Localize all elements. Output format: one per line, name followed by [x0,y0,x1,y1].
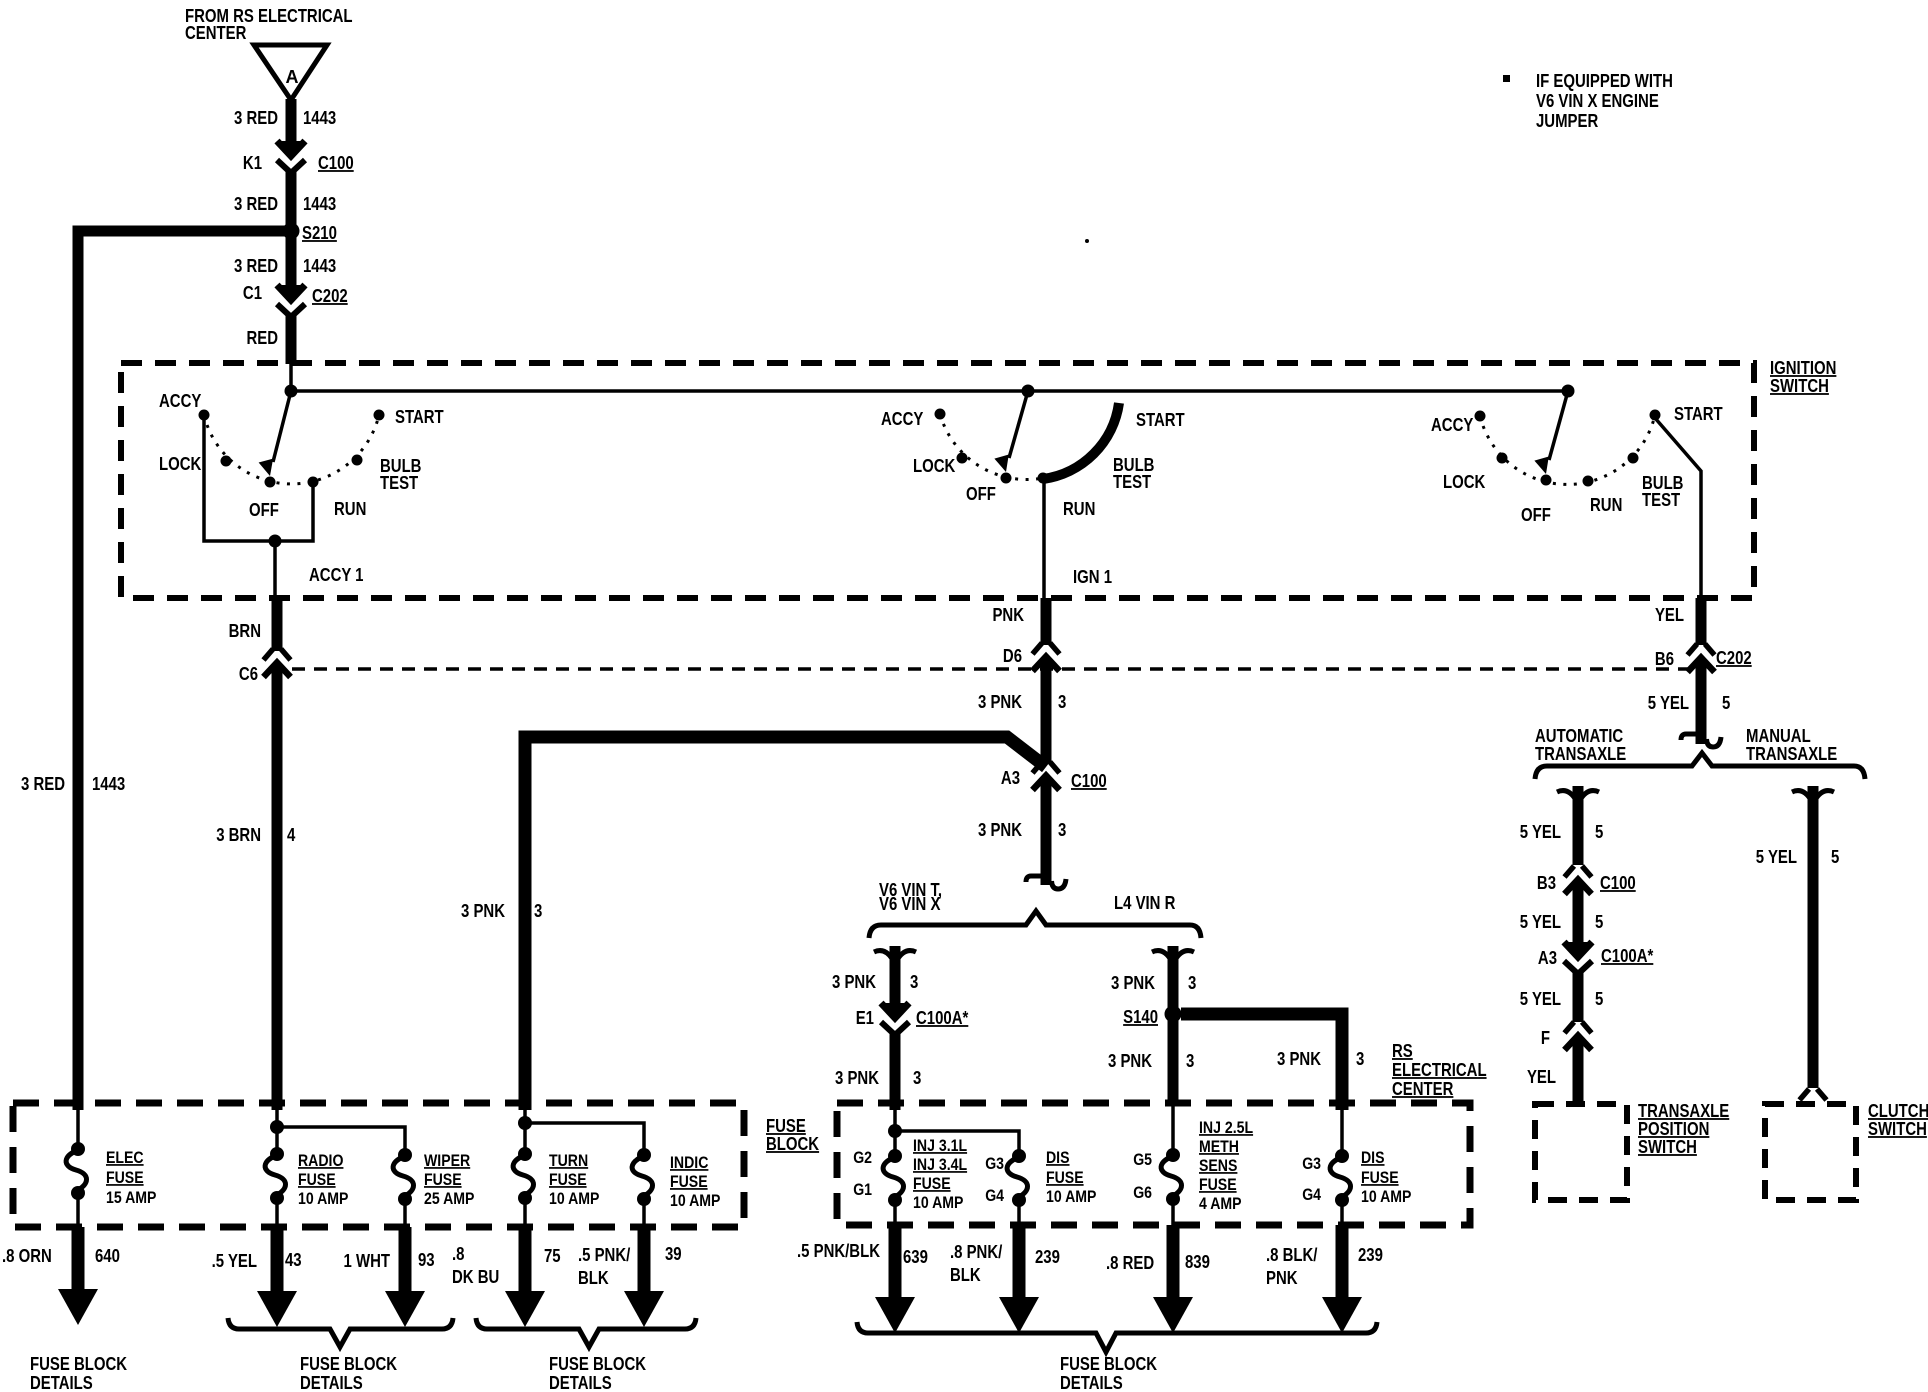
svg-text:10 AMP: 10 AMP [1361,1188,1411,1206]
svg-text:C100A*: C100A* [916,1008,969,1029]
wire 3 PNK 3 (S140 right to DIS fuse) [1181,1014,1342,1110]
wire split prongs above transaxle brace [1681,734,1721,747]
switch 3 contact LOCK [1497,453,1508,464]
svg-text:5: 5 [1831,847,1839,868]
switch 3 output line from START [1655,418,1701,598]
switch 1 contact BULB TEST [352,455,363,466]
svg-text:L4 VIN R: L4 VIN R [1114,893,1175,914]
svg-text:.8: .8 [452,1244,464,1265]
switch 2 contact RUN [1038,473,1049,484]
svg-text:DETAILS: DETAILS [1060,1373,1123,1392]
svg-text:TRANSAXLE: TRANSAXLE [1535,744,1626,765]
svg-text:10 AMP: 10 AMP [298,1190,348,1208]
svg-text:A3: A3 [1001,768,1020,789]
switch 3 wiper arrow to OFF [1549,391,1568,460]
ignition switch pole 2: dotted position arc [940,414,1043,480]
wire 3 PNK 3 (C100 to engine split) [1041,779,1052,885]
svg-text:5: 5 [1595,912,1603,933]
svg-text:START: START [395,407,444,428]
svg-text:.5 PNK/BLK: .5 PNK/BLK [797,1241,880,1262]
thick branch wire from TURN fuse feed to C100/A3 [525,737,1046,1110]
svg-text:START: START [1136,410,1185,431]
svg-text:239: 239 [1358,1245,1383,1266]
svg-text:D6: D6 [1003,646,1022,667]
svg-text:ELECTRICAL: ELECTRICAL [1392,1060,1487,1081]
TURN FUSE 10 AMP element [518,1147,532,1161]
wire PNK (IGN 1 out of box) [1041,598,1052,645]
WIPER FUSE 25 AMP element [398,1148,412,1162]
wire YEL (START out of box) [1696,598,1707,645]
TURN fuse feed wire and junction [523,1110,527,1154]
svg-text:.8 RED: .8 RED [1106,1253,1154,1274]
automatic transaxle branch start prongs [1557,791,1599,800]
svg-text:839: 839 [1185,1252,1210,1273]
svg-text:G3: G3 [985,1155,1004,1173]
output arrow .5 PNK/BLK 39 [638,1227,651,1295]
svg-text:TEST: TEST [380,473,418,494]
switch 1 wiper arrow to OFF [273,391,291,462]
svg-text:G4: G4 [1302,1186,1321,1204]
svg-text:93: 93 [418,1250,435,1271]
svg-text:3 PNK: 3 PNK [461,901,505,922]
svg-text:ACCY: ACCY [881,409,923,430]
svg-text:K1: K1 [243,153,262,174]
svg-text:S210: S210 [302,223,337,244]
switch 1 contact OFF [265,477,276,488]
svg-text:LOCK: LOCK [1443,472,1485,493]
junction node switch 3 feed [1562,385,1575,398]
svg-text:3: 3 [1188,973,1196,994]
svg-text:5: 5 [1722,693,1730,714]
brace V6 vs L4 engine split [869,911,1201,938]
svg-text:C6: C6 [239,664,258,685]
svg-text:S140: S140 [1123,1007,1158,1028]
svg-text:3 PNK: 3 PNK [1111,973,1155,994]
RADIO fuse feed wire and junction [275,1103,279,1154]
svg-text:.5 YEL: .5 YEL [212,1251,257,1272]
svg-text:FUSE: FUSE [913,1175,951,1193]
svg-text:640: 640 [95,1246,120,1267]
connector C202 pin C1 [277,285,305,317]
dashed connector plane line (C202) [292,667,1692,671]
svg-text:G5: G5 [1133,1151,1152,1169]
svg-text:.8 PNK/: .8 PNK/ [950,1242,1003,1263]
svg-text:3: 3 [1058,692,1066,713]
L4 branch wire start prongs [1152,951,1194,960]
svg-text:BLOCK: BLOCK [766,1134,819,1155]
svg-text:FUSE: FUSE [298,1171,336,1189]
svg-text:10 AMP: 10 AMP [670,1192,720,1210]
RS electrical center dashed box [837,1103,1470,1225]
junction node switch 1 feed [285,385,298,398]
svg-text:DETAILS: DETAILS [30,1373,93,1392]
svg-text:OFF: OFF [249,500,279,521]
svg-text:5 YEL: 5 YEL [1648,693,1689,714]
svg-text:BLK: BLK [950,1265,981,1286]
svg-text:3 RED: 3 RED [234,194,278,215]
svg-text:START: START [1674,404,1723,425]
svg-text:1443: 1443 [303,194,336,215]
svg-text:FUSE: FUSE [1046,1169,1084,1187]
svg-text:3 RED: 3 RED [234,256,278,277]
connector triangle A from RS Electrical Center [254,45,327,100]
svg-text:A3: A3 [1538,948,1557,969]
svg-text:1443: 1443 [92,774,125,795]
switch 2 contact OFF [1001,473,1012,484]
svg-text:FUSE: FUSE [1361,1169,1399,1187]
DIS FUSE 10 AMP element (right) [1335,1149,1349,1163]
svg-text:FUSE BLOCK: FUSE BLOCK [549,1354,646,1375]
brace under RS center arrows [857,1322,1377,1352]
svg-text:DIS: DIS [1361,1149,1385,1167]
svg-text:C100: C100 [318,153,354,174]
svg-text:3 PNK: 3 PNK [1277,1049,1321,1070]
svg-text:RED: RED [246,328,278,349]
wire 5 YEL 5 (to clutch switch) [1808,786,1819,1088]
svg-text:DETAILS: DETAILS [549,1373,612,1392]
connector pin F [1565,1022,1592,1050]
svg-text:3 RED: 3 RED [234,108,278,129]
svg-text:INJ 3.1L: INJ 3.1L [913,1137,967,1155]
svg-text:239: 239 [1035,1247,1060,1268]
svg-text:G4: G4 [985,1187,1004,1205]
svg-text:OFF: OFF [966,484,996,505]
svg-text:E1: E1 [856,1008,874,1029]
svg-text:V6 VIN X ENGINE: V6 VIN X ENGINE [1536,91,1659,112]
V6 branch wire start prongs [874,951,916,960]
svg-text:B6: B6 [1655,649,1674,670]
DIS FUSE 10 AMP element (left) [1012,1149,1026,1163]
wire RED entry into box [289,363,293,391]
switch 3 contact BULB TEST [1628,453,1639,464]
svg-text:FUSE: FUSE [670,1173,708,1191]
clutch switch dashed box [1765,1104,1856,1200]
bus wire across ignition switch feeds [291,389,1568,393]
svg-text:10 AMP: 10 AMP [549,1190,599,1208]
svg-text:3 PNK: 3 PNK [1108,1051,1152,1072]
wire 3 RED 1443 (S210 to C202) [286,231,297,286]
svg-text:3 PNK: 3 PNK [832,972,876,993]
svg-text:G1: G1 [853,1181,872,1199]
svg-text:G2: G2 [853,1149,872,1167]
wire 3 PNK 3 (D6 to C100) [1041,660,1052,763]
svg-text:3: 3 [1186,1051,1194,1072]
output arrow .8 PNK/BLK 239 [1013,1225,1026,1297]
switch 3 contact START [1650,410,1661,421]
svg-text:5 YEL: 5 YEL [1520,989,1561,1010]
wire BRN (ACCY 1 out of box) [272,598,283,651]
svg-text:BRN: BRN [229,621,261,642]
switch 3 contact OFF [1541,475,1552,486]
svg-text:3 RED: 3 RED [21,774,65,795]
wire 3 PNK 3 (C100A to fuse block) [890,1031,901,1110]
switch 1 contact ACCY [199,410,210,421]
ELEC fuse output to arrow [76,1193,80,1227]
svg-text:V6 VIN X: V6 VIN X [879,894,940,915]
svg-text:PNK: PNK [1266,1268,1298,1289]
ignition switch pole 3: dotted position arc [1480,415,1655,484]
wire RED (C202 to ignition switch) [286,314,297,364]
svg-text:INJ 3.4L: INJ 3.4L [913,1156,967,1174]
switch 2 wiper arc in RUN position (bold) [1043,403,1119,479]
svg-text:FUSE: FUSE [424,1171,462,1189]
connector C202 pin B6 [1688,644,1715,672]
svg-text:10 AMP: 10 AMP [913,1194,963,1212]
DIS fuse (right) feed wire [1340,1108,1344,1156]
svg-text:5: 5 [1595,822,1603,843]
svg-text:B3: B3 [1537,873,1556,894]
svg-text:SWITCH: SWITCH [1770,376,1829,397]
svg-text:SENS: SENS [1199,1157,1237,1175]
wire end prongs at clutch switch [1800,1089,1827,1100]
svg-text:3 BRN: 3 BRN [216,825,261,846]
svg-text:G6: G6 [1133,1184,1152,1202]
wire 3 PNK 3 (V6 branch to C100A) [890,946,901,1003]
output arrow .8 ORN 640 [72,1227,85,1295]
svg-text:3 PNK: 3 PNK [835,1068,879,1089]
svg-text:39: 39 [665,1244,682,1265]
svg-text:DETAILS: DETAILS [300,1373,363,1392]
svg-text:JUMPER: JUMPER [1536,111,1598,132]
svg-text:75: 75 [544,1246,561,1267]
switch 1 contact LOCK [221,456,232,467]
wire 5 YEL 5 (to C100 B3) [1573,786,1584,865]
svg-text:.8 ORN: .8 ORN [2,1246,52,1267]
svg-text:INJ 2.5L: INJ 2.5L [1199,1119,1253,1137]
svg-text:CENTER: CENTER [1392,1079,1453,1100]
transaxle position switch dashed box [1535,1104,1627,1200]
svg-text:3: 3 [1356,1049,1364,1070]
wire 3 RED 1443 (triangle A to C100) [286,99,297,142]
wire 3 PNK 3 (L4 branch to S140) [1168,946,1179,1014]
svg-text:FUSE BLOCK: FUSE BLOCK [30,1354,127,1375]
svg-text:4 AMP: 4 AMP [1199,1195,1242,1213]
svg-text:RUN: RUN [1590,495,1622,516]
switch 1 contact START [374,410,385,421]
ignition switch dashed box [121,363,1754,598]
svg-text:DK BU: DK BU [452,1267,499,1288]
output arrow .5 YEL 43 [271,1227,284,1295]
svg-text:F: F [1541,1028,1550,1049]
svg-text:43: 43 [285,1250,302,1271]
svg-text:WIPER: WIPER [424,1152,470,1170]
svg-text:C100: C100 [1071,771,1107,792]
svg-text:FUSE: FUSE [549,1171,587,1189]
wire YEL (F to transaxle position switch) [1573,1039,1584,1105]
connector C100A pin E1 [881,1003,909,1035]
fuse block dashed box (left) [13,1103,744,1227]
wire 5 YEL 5 (C100A to connector F) [1573,970,1584,1022]
svg-text:FUSE BLOCK: FUSE BLOCK [1060,1354,1157,1375]
wire 3 RED 1443 (C100 to S210) [286,170,297,227]
svg-text:YEL: YEL [1527,1067,1556,1088]
output arrow .8 RED 839 [1167,1225,1180,1297]
wire 5 YEL 5 (B6 to transaxle split) [1696,661,1707,744]
svg-text:FUSE BLOCK: FUSE BLOCK [300,1354,397,1375]
junction node switch 2 feed [1022,385,1035,398]
svg-text:10 AMP: 10 AMP [1046,1188,1096,1206]
switch 1 contact RUN [308,477,319,488]
switch 2 wiper arrow to OFF [1009,391,1028,458]
svg-text:ACCY: ACCY [159,391,201,412]
connector C202 pin D6 [1033,643,1060,671]
svg-text:TURN: TURN [549,1152,588,1170]
svg-text:G3: G3 [1302,1155,1321,1173]
svg-text:C100: C100 [1600,873,1636,894]
INDIC FUSE 10 AMP element [637,1148,651,1162]
svg-text:IGN 1: IGN 1 [1073,567,1112,588]
svg-text:C100A*: C100A* [1601,946,1654,967]
connector C202 pin C6 [264,649,291,677]
svg-text:A: A [286,67,299,87]
svg-text:TEST: TEST [1113,472,1151,493]
svg-text:FUSE: FUSE [106,1169,144,1187]
svg-text:C202: C202 [1716,648,1752,669]
switch 2 output line IGN 1 [1042,482,1046,598]
wire 3 PNK 3 (S140 down to METH SENS fuse) [1168,1014,1179,1104]
connector C100 pin K1 [277,141,305,173]
connector C100 pin A3 [1033,762,1060,790]
svg-text:FUSE: FUSE [1199,1176,1237,1194]
svg-text:ELEC: ELEC [106,1149,144,1167]
output arrow 1 WHT 93 [399,1227,412,1295]
splice S140 [1165,1006,1182,1023]
svg-text:YEL: YEL [1655,605,1684,626]
manual transaxle branch start prongs [1792,791,1834,800]
wire 5 YEL 5 (C100 to C100A) [1573,883,1584,943]
svg-text:.8 BLK/: .8 BLK/ [1266,1245,1318,1266]
svg-text:BLK: BLK [578,1268,609,1289]
svg-text:5 YEL: 5 YEL [1756,847,1797,868]
svg-text:1443: 1443 [303,108,336,129]
svg-text:RADIO: RADIO [298,1152,343,1170]
svg-text:PNK: PNK [992,605,1024,626]
INJ 2.5L METH SENS FUSE 4 AMP element [1166,1148,1180,1162]
svg-text:SWITCH: SWITCH [1638,1137,1697,1158]
svg-text:INDIC: INDIC [670,1154,708,1172]
note: if equipped with V6 VIN X engine jumper [1503,75,1510,82]
svg-text:15 AMP: 15 AMP [106,1189,156,1207]
svg-text:3: 3 [534,901,542,922]
svg-text:SWITCH: SWITCH [1868,1119,1927,1140]
svg-text:LOCK: LOCK [159,454,201,475]
svg-text:25 AMP: 25 AMP [424,1190,474,1208]
splice S210 [283,223,300,240]
wire split prongs above V6/L4 brace [1026,876,1066,889]
svg-text:OFF: OFF [1521,505,1551,526]
svg-text:ACCY 1: ACCY 1 [309,565,364,586]
svg-text:C1: C1 [243,283,262,304]
wire 3 BRN 4 (C6 to fuse block) [272,666,283,1110]
svg-text:.5 PNK/: .5 PNK/ [578,1245,631,1266]
INJ fuse feed wire and junction [893,1108,897,1156]
brace automatic vs manual transaxle [1535,753,1865,779]
svg-text:5: 5 [1595,989,1603,1010]
svg-text:1443: 1443 [303,256,336,277]
ELEC fuse feed wire inside box [76,1103,80,1149]
output arrow .8 DK BU 75 [519,1227,532,1295]
connector C100A pin A3 [1564,942,1592,974]
svg-text:METH: METH [1199,1138,1239,1156]
switch 3 contact RUN [1583,476,1594,487]
svg-text:5 YEL: 5 YEL [1520,822,1561,843]
ignition switch pole 1: dotted position arc [204,415,379,484]
connector C100 pin B3 [1565,866,1592,894]
switch 1 output wiring ACCY+RUN to ACCY 1 [204,415,313,541]
brace under RADIO/WIPER arrows [228,1318,453,1347]
svg-text:TEST: TEST [1642,490,1680,511]
RADIO FUSE 10 AMP element [270,1147,284,1161]
METH SENS fuse feed wire [1171,1104,1175,1155]
svg-text:TRANSAXLE: TRANSAXLE [1746,744,1837,765]
svg-text:CENTER: CENTER [185,23,246,44]
svg-text:DIS: DIS [1046,1149,1070,1167]
svg-text:ACCY: ACCY [1431,415,1473,436]
ELEC FUSE 15 AMP element [71,1142,85,1156]
svg-text:3: 3 [1058,820,1066,841]
svg-text:3 PNK: 3 PNK [978,820,1022,841]
svg-text:5 YEL: 5 YEL [1520,912,1561,933]
svg-text:RUN: RUN [334,499,366,520]
switch 2 contact ACCY [935,409,946,420]
brace under TURN/INDIC arrows [476,1318,696,1347]
svg-text:RUN: RUN [1063,499,1095,520]
svg-text:1 WHT: 1 WHT [344,1251,390,1272]
stray printed speck [1085,239,1089,243]
svg-text:IF EQUIPPED WITH: IF EQUIPPED WITH [1536,71,1673,92]
output arrow .8 BLK/PNK 239 [1336,1225,1349,1297]
INJ 3.1L/3.4L FUSE 10 AMP element [888,1149,902,1163]
wire from S210 left and down to ELEC fuse [78,231,285,1110]
switch 3 contact ACCY [1475,411,1486,422]
svg-text:LOCK: LOCK [913,456,955,477]
svg-text:C202: C202 [312,286,348,307]
output arrow .5 PNK/BLK 639 [889,1225,902,1297]
svg-text:RS: RS [1392,1041,1413,1062]
svg-text:4: 4 [287,825,296,846]
svg-text:3 PNK: 3 PNK [978,692,1022,713]
switch 2 contact LOCK [957,453,968,464]
svg-text:639: 639 [903,1247,928,1268]
svg-text:3: 3 [910,972,918,993]
svg-text:3: 3 [913,1068,921,1089]
